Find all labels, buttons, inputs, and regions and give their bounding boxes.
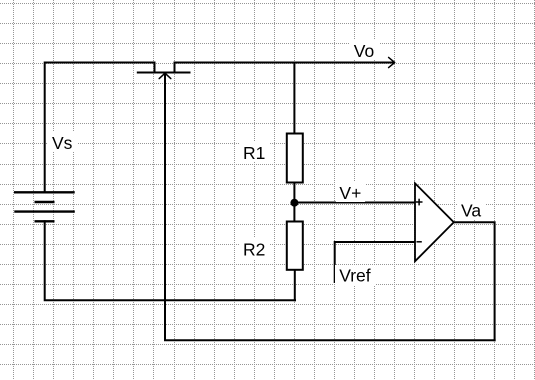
svg-text:Va: Va (461, 200, 481, 220)
svg-text:R1: R1 (243, 143, 265, 163)
svg-text:V+: V+ (339, 183, 361, 203)
svg-text:Vo: Vo (354, 41, 374, 61)
svg-text:Vs: Vs (52, 133, 73, 153)
svg-text:R2: R2 (243, 240, 265, 260)
svg-text:Vref: Vref (339, 266, 371, 286)
